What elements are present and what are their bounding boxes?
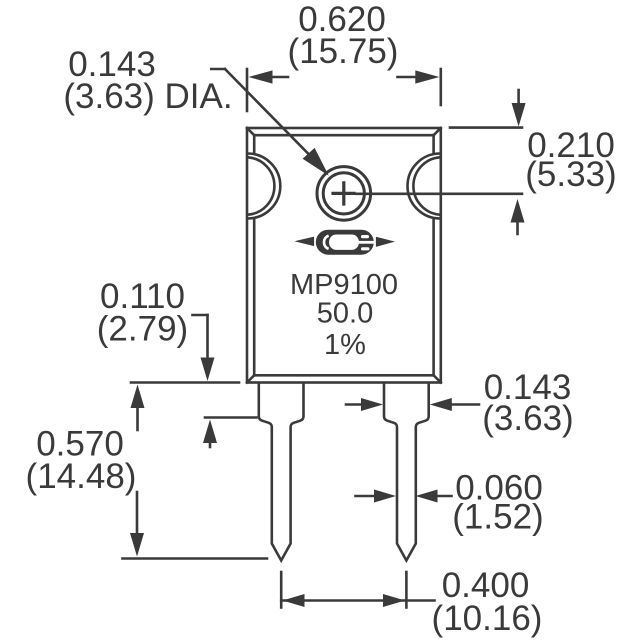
svg-text:(1.52): (1.52) (452, 498, 543, 537)
dim 0.620 right extension line (439, 69, 442, 105)
hole dia leader horizontal segment (211, 68, 225, 71)
left side cutout inner arc (248, 157, 274, 214)
dim 0.210 down arrowhead (512, 103, 526, 127)
dim 0.210 top extension line (450, 126, 522, 129)
hole center cross (333, 183, 354, 204)
svg-text:(2.79): (2.79) (97, 310, 188, 349)
dim 0.570 up arrow shaft (136, 406, 139, 430)
dim 0.110 leader horizontal (193, 314, 208, 317)
lead 1 (left) outline (259, 383, 304, 561)
dim 0.110 up arrowhead (203, 420, 217, 444)
dim 0.620 dimension line left segment (271, 76, 289, 79)
body inner bevel left edge (253, 135, 256, 375)
dim 0.400 right extension tick (405, 572, 408, 608)
dim 0.570 down arrowhead (130, 533, 144, 557)
svg-text:(3.63): (3.63) (482, 399, 573, 438)
dim 0.060 left arrowhead (416, 490, 438, 503)
logo inner white C opening (329, 235, 359, 250)
logo bottom-right white notch (361, 247, 370, 250)
dim 0.210 hole-center extension line (357, 193, 523, 196)
dim 0.143 lead left arrow shaft (452, 403, 480, 406)
dim 0.143 lead right arrowhead (361, 398, 383, 411)
dim 0.620 left arrowhead (249, 70, 273, 83)
dim 0.400 right arrowhead (383, 594, 405, 607)
dim 0.210 up arrow shaft (516, 221, 519, 234)
body inner bevel bottom edge (254, 374, 433, 377)
hole dia leader arrowhead (303, 148, 329, 176)
dim 0.210 down arrow shaft (517, 90, 520, 105)
lead tip extension line (123, 557, 268, 560)
svg-text:(15.75): (15.75) (288, 32, 399, 71)
body bottom extension line (131, 381, 239, 384)
left side cutout outer arc (248, 154, 281, 219)
svg-text:1%: 1% (324, 329, 366, 361)
logo left arrow (294, 237, 314, 247)
logo right white slit (356, 241, 375, 244)
body outer outline (247, 128, 441, 383)
dim 0.400 left arrowhead (283, 594, 305, 607)
dim 0.143 lead right arrow shaft (346, 403, 362, 406)
dim 0.060 right arrowhead (374, 490, 396, 503)
hole dia leader diagonal (225, 69, 311, 157)
dim 0.110 up arrow shaft (209, 441, 212, 447)
mounting hole inner circle (323, 173, 364, 214)
dim 0.400 left extension tick (280, 572, 283, 608)
logo top-right white notch (361, 235, 369, 238)
logo right arrow (376, 237, 395, 247)
logo left white arc (324, 236, 329, 249)
svg-text:(5.33): (5.33) (525, 155, 616, 194)
dim 0.570 up arrowhead (131, 385, 145, 409)
svg-text:(14.48): (14.48) (26, 457, 137, 496)
Caddock logo (294, 230, 395, 255)
svg-text:(10.16): (10.16) (432, 599, 543, 638)
svg-text:50.0: 50.0 (317, 298, 373, 330)
body inner bevel top edge (254, 134, 433, 137)
body corner bevel diagonals (247, 128, 441, 383)
dim 0.210 up arrowhead (511, 199, 525, 223)
dim 0.620 right arrowhead (415, 70, 439, 83)
dim 0.143 lead left arrowhead (430, 398, 452, 411)
lead 2 (right) outline (384, 383, 429, 561)
body inner bevel right edge (432, 135, 435, 375)
right side cutout inner arc (413, 157, 439, 214)
right side cutout outer arc (408, 154, 441, 219)
logo body stadium (316, 230, 374, 255)
dim 0.110 down arrowhead (201, 358, 215, 382)
svg-text:(3.63) DIA.: (3.63) DIA. (63, 77, 232, 116)
svg-text:MP9100: MP9100 (290, 269, 398, 301)
dim 0.620 left extension line (246, 69, 249, 111)
dim 0.570 down arrow shaft (136, 492, 139, 535)
mounting hole outer circle (317, 167, 371, 221)
lead shoulder extension line (205, 416, 257, 419)
dim 0.060 right arrow shaft (356, 495, 376, 498)
dim 0.620 dimension line right segment (398, 76, 418, 79)
dim 0.110 leader vertical shaft (206, 315, 209, 359)
dim 0.060 left arrow shaft (437, 495, 452, 498)
dim 0.400 dimension line (281, 599, 434, 602)
